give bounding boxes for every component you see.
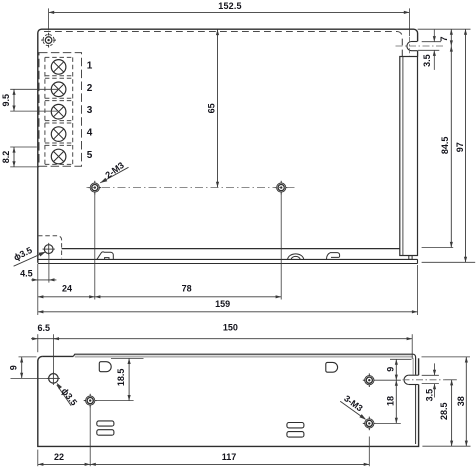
bottom M3 hole left — [84, 394, 97, 408]
label dia 3.5 with leader (side view) — [57, 383, 79, 408]
svg-text:9: 9 — [386, 367, 396, 372]
dimension 38 (overall height side view) — [422, 357, 471, 446]
svg-text:38: 38 — [456, 396, 466, 406]
svg-text:152.5: 152.5 — [218, 1, 242, 11]
chassis corner hole (top left) — [41, 33, 56, 48]
side mounting slot (side view keyhole) — [403, 375, 445, 384]
terminal number 2 — [87, 83, 93, 94]
dimension 18.5 — [95, 358, 144, 400]
svg-text:9: 9 — [8, 365, 18, 370]
cover edge below side slot — [415, 385, 417, 444]
case bottom edge — [62, 248, 400, 250]
svg-text:18: 18 — [386, 396, 396, 406]
side view: case outline — [38, 356, 419, 446]
dimension 18 (right) — [376, 380, 401, 423]
dimension 159 overall width — [38, 265, 418, 315]
dimension 3.5 (slot width, side view) — [422, 363, 439, 401]
dimension 78 — [95, 284, 281, 299]
dimension 9.5 (terminal pitch) — [1, 89, 58, 111]
svg-text:22: 22 — [54, 452, 64, 462]
dimension 7 (top to slot center) — [439, 29, 453, 46]
svg-text:5: 5 — [87, 150, 93, 161]
dimension 28.5 — [439, 380, 457, 446]
extension line from left M3 hole down — [94, 194, 96, 300]
svg-text:117: 117 — [222, 452, 237, 462]
svg-text:ɸ3.5: ɸ3.5 — [59, 386, 79, 407]
label dia 3.5 with leader (top view) — [12, 245, 46, 266]
svg-text:ɸ3.5: ɸ3.5 — [12, 245, 34, 263]
dimension 152.5 overall top — [49, 1, 410, 36]
terminal number 4 — [87, 128, 93, 139]
svg-text:7: 7 — [439, 36, 449, 41]
svg-text:1: 1 — [87, 60, 93, 71]
chassis M3 hole right — [275, 181, 288, 195]
terminal number 1 — [87, 60, 93, 71]
vent slot pair lower left — [97, 421, 114, 435]
svg-text:159: 159 — [215, 299, 230, 309]
svg-text:6.5: 6.5 — [38, 323, 51, 333]
chassis M3 hole left — [88, 181, 101, 195]
side vent slot D-shape left — [99, 362, 111, 372]
svg-text:78: 78 — [182, 284, 192, 294]
label 3-M3 with leader — [340, 393, 366, 419]
top view: case outline (chassis with cover) — [38, 29, 418, 263]
dimension 4.5 (flange hole offset) — [20, 255, 56, 283]
dimension 22 — [38, 406, 90, 467]
right side wall (narrow strip) — [400, 57, 418, 256]
terminal number 3 — [87, 105, 93, 116]
flange slot cutout right (hook) — [327, 253, 340, 260]
svg-text:4.5: 4.5 — [20, 268, 33, 278]
svg-text:28.5: 28.5 — [439, 402, 449, 420]
side mounting hole dia 3.5 (left) — [47, 372, 60, 385]
flange slot cutout left — [97, 252, 113, 260]
svg-text:4: 4 — [87, 128, 93, 139]
mounting ear (dashed hidden outline, bottom left) — [38, 236, 62, 258]
vent slot pair lower middle-right — [287, 423, 304, 438]
svg-text:3: 3 — [87, 105, 93, 116]
svg-text:150: 150 — [223, 323, 238, 333]
svg-text:18.5: 18.5 — [116, 369, 126, 387]
hidden cover edge (dashed) along top — [44, 32, 402, 57]
side wall foot tab — [409, 256, 412, 260]
terminal screw 2 — [51, 82, 66, 97]
cover top band (side view) — [73, 354, 415, 375]
svg-text:24: 24 — [62, 284, 72, 294]
side mounting slot (top right, keyhole) — [396, 37, 445, 56]
side vent slot D-shape right — [326, 362, 338, 372]
left edge extension line down — [37, 264, 39, 315]
terminal screw 3 — [51, 104, 66, 119]
terminal screw 5 — [51, 149, 66, 164]
dimension 84.5 (slot center to bottom) — [422, 46, 454, 248]
terminal number 5 — [87, 150, 93, 161]
flange slot cutout middle (arch) — [288, 254, 304, 259]
svg-text:3.5: 3.5 — [425, 389, 435, 402]
dimension 150 — [53, 323, 412, 359]
extension line from right M3 hole down — [280, 194, 282, 300]
svg-text:84.5: 84.5 — [440, 137, 450, 155]
terminal block inner dashed sub-boxes — [45, 57, 73, 164]
svg-text:97: 97 — [455, 142, 465, 152]
top edge extension line right — [418, 28, 471, 30]
terminal screw 4 — [51, 127, 66, 142]
svg-text:3.5: 3.5 — [422, 54, 432, 67]
dimension 117 — [90, 437, 369, 467]
dimension 9 (left, top to hole) — [8, 357, 48, 379]
svg-text:9.5: 9.5 — [1, 94, 11, 107]
bottom M3 hole right upper — [363, 373, 376, 387]
terminal screw 1 — [51, 60, 66, 75]
svg-text:65: 65 — [206, 103, 216, 113]
bottom M3 hole right lower — [363, 417, 376, 431]
dimension 97 (overall height of top view) — [422, 29, 476, 262]
terminal block outer dashed box — [39, 53, 82, 167]
dimension 3.5 (slot width, top view) — [418, 30, 441, 70]
dimension 9 (right) — [376, 359, 412, 380]
ear mounting hole dia 3.5 — [43, 243, 55, 255]
dimension 6.5 — [31, 323, 59, 373]
dimension 65 (top to hole center line) — [206, 30, 219, 188]
label 2-M3 with leader — [100, 160, 128, 183]
center line through M3 holes — [87, 187, 295, 189]
mounting flange bottom (two lines) — [38, 259, 418, 263]
svg-text:8.2: 8.2 — [1, 151, 11, 164]
svg-text:2-M3: 2-M3 — [103, 160, 125, 180]
dimension 8.2 (terminal pitch) — [1, 147, 39, 167]
svg-text:2: 2 — [87, 83, 93, 94]
dimension 24 — [38, 284, 95, 299]
